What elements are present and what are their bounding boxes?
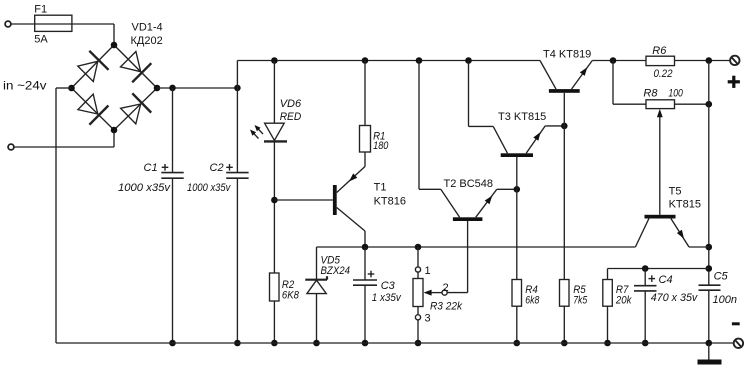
svg-text:180: 180 xyxy=(373,140,389,152)
svg-text:VD1-4: VD1-4 xyxy=(132,22,163,34)
svg-text:20k: 20k xyxy=(615,295,632,307)
svg-text:R6: R6 xyxy=(652,45,667,57)
svg-text:in ~24v: in ~24v xyxy=(3,79,47,93)
svg-text:1: 1 xyxy=(425,265,431,277)
svg-text:C2: C2 xyxy=(210,162,224,174)
svg-text:T1: T1 xyxy=(374,182,387,194)
svg-text:R3 22k: R3 22k xyxy=(430,301,462,313)
svg-text:VD6: VD6 xyxy=(280,98,302,110)
svg-text:T4 KT819: T4 KT819 xyxy=(543,48,591,60)
svg-text:0.22: 0.22 xyxy=(654,68,673,80)
svg-text:6K8: 6K8 xyxy=(282,290,300,302)
svg-text:BZX24: BZX24 xyxy=(321,265,351,277)
svg-text:KT815: KT815 xyxy=(669,199,701,211)
svg-text:1000 x35v: 1000 x35v xyxy=(187,182,232,194)
svg-text:КД202: КД202 xyxy=(131,35,163,47)
svg-text:470 x 35v: 470 x 35v xyxy=(651,292,699,304)
svg-text:T2 BC548: T2 BC548 xyxy=(444,178,494,190)
svg-text:100n: 100n xyxy=(713,294,737,306)
svg-text:C1: C1 xyxy=(144,162,158,174)
svg-text:KT816: KT816 xyxy=(374,196,406,208)
svg-text:C3: C3 xyxy=(381,280,396,292)
svg-text:2: 2 xyxy=(443,282,449,294)
svg-text:1000 x35v: 1000 x35v xyxy=(118,182,172,194)
svg-text:5A: 5A xyxy=(34,33,48,45)
svg-text:6k8: 6k8 xyxy=(525,295,540,307)
svg-text:R8: R8 xyxy=(643,87,658,99)
svg-text:1 x35v: 1 x35v xyxy=(372,292,402,304)
svg-text:100: 100 xyxy=(668,87,683,99)
svg-text:F1: F1 xyxy=(34,4,47,16)
svg-text:7k5: 7k5 xyxy=(573,295,588,307)
svg-text:3: 3 xyxy=(425,313,431,325)
svg-text:C4: C4 xyxy=(659,274,673,286)
svg-text:T5: T5 xyxy=(669,186,682,198)
svg-text:RED: RED xyxy=(280,111,302,123)
svg-text:C5: C5 xyxy=(714,271,729,283)
svg-text:T3 KT815: T3 KT815 xyxy=(498,111,546,123)
